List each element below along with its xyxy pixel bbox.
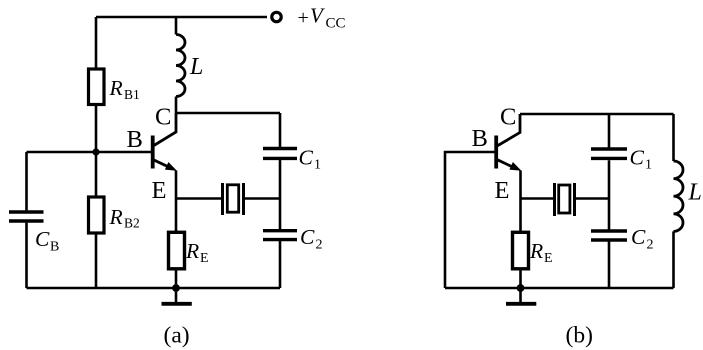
svg-text:E: E (200, 251, 209, 266)
svg-text:B: B (127, 126, 143, 153)
svg-text:R: R (185, 239, 199, 263)
svg-text:C: C (631, 225, 646, 249)
svg-text:V: V (310, 4, 325, 28)
svg-text:R: R (109, 205, 123, 229)
svg-text:2: 2 (316, 238, 323, 253)
svg-text:1: 1 (314, 158, 321, 173)
svg-text:C: C (155, 104, 171, 131)
svg-text:C: C (35, 227, 50, 251)
svg-text:R: R (529, 239, 543, 263)
svg-text:C: C (500, 104, 516, 131)
svg-text:+: + (298, 7, 309, 29)
svg-text:E: E (495, 177, 510, 204)
svg-text:B: B (50, 240, 59, 255)
svg-text:(a): (a) (164, 323, 190, 349)
svg-text:E: E (544, 251, 553, 266)
svg-text:B1: B1 (124, 87, 140, 102)
svg-text:C: C (299, 146, 314, 170)
svg-text:B: B (472, 125, 488, 152)
svg-text:E: E (152, 177, 167, 204)
svg-text:R: R (109, 76, 123, 100)
svg-text:L: L (688, 179, 702, 205)
svg-text:L: L (189, 54, 203, 80)
svg-text:C: C (300, 225, 315, 249)
svg-text:1: 1 (645, 158, 652, 173)
svg-text:2: 2 (647, 238, 654, 253)
svg-text:C: C (630, 146, 645, 170)
svg-text:(b): (b) (566, 323, 593, 349)
svg-text:CC: CC (326, 16, 346, 32)
svg-text:B2: B2 (124, 216, 140, 231)
